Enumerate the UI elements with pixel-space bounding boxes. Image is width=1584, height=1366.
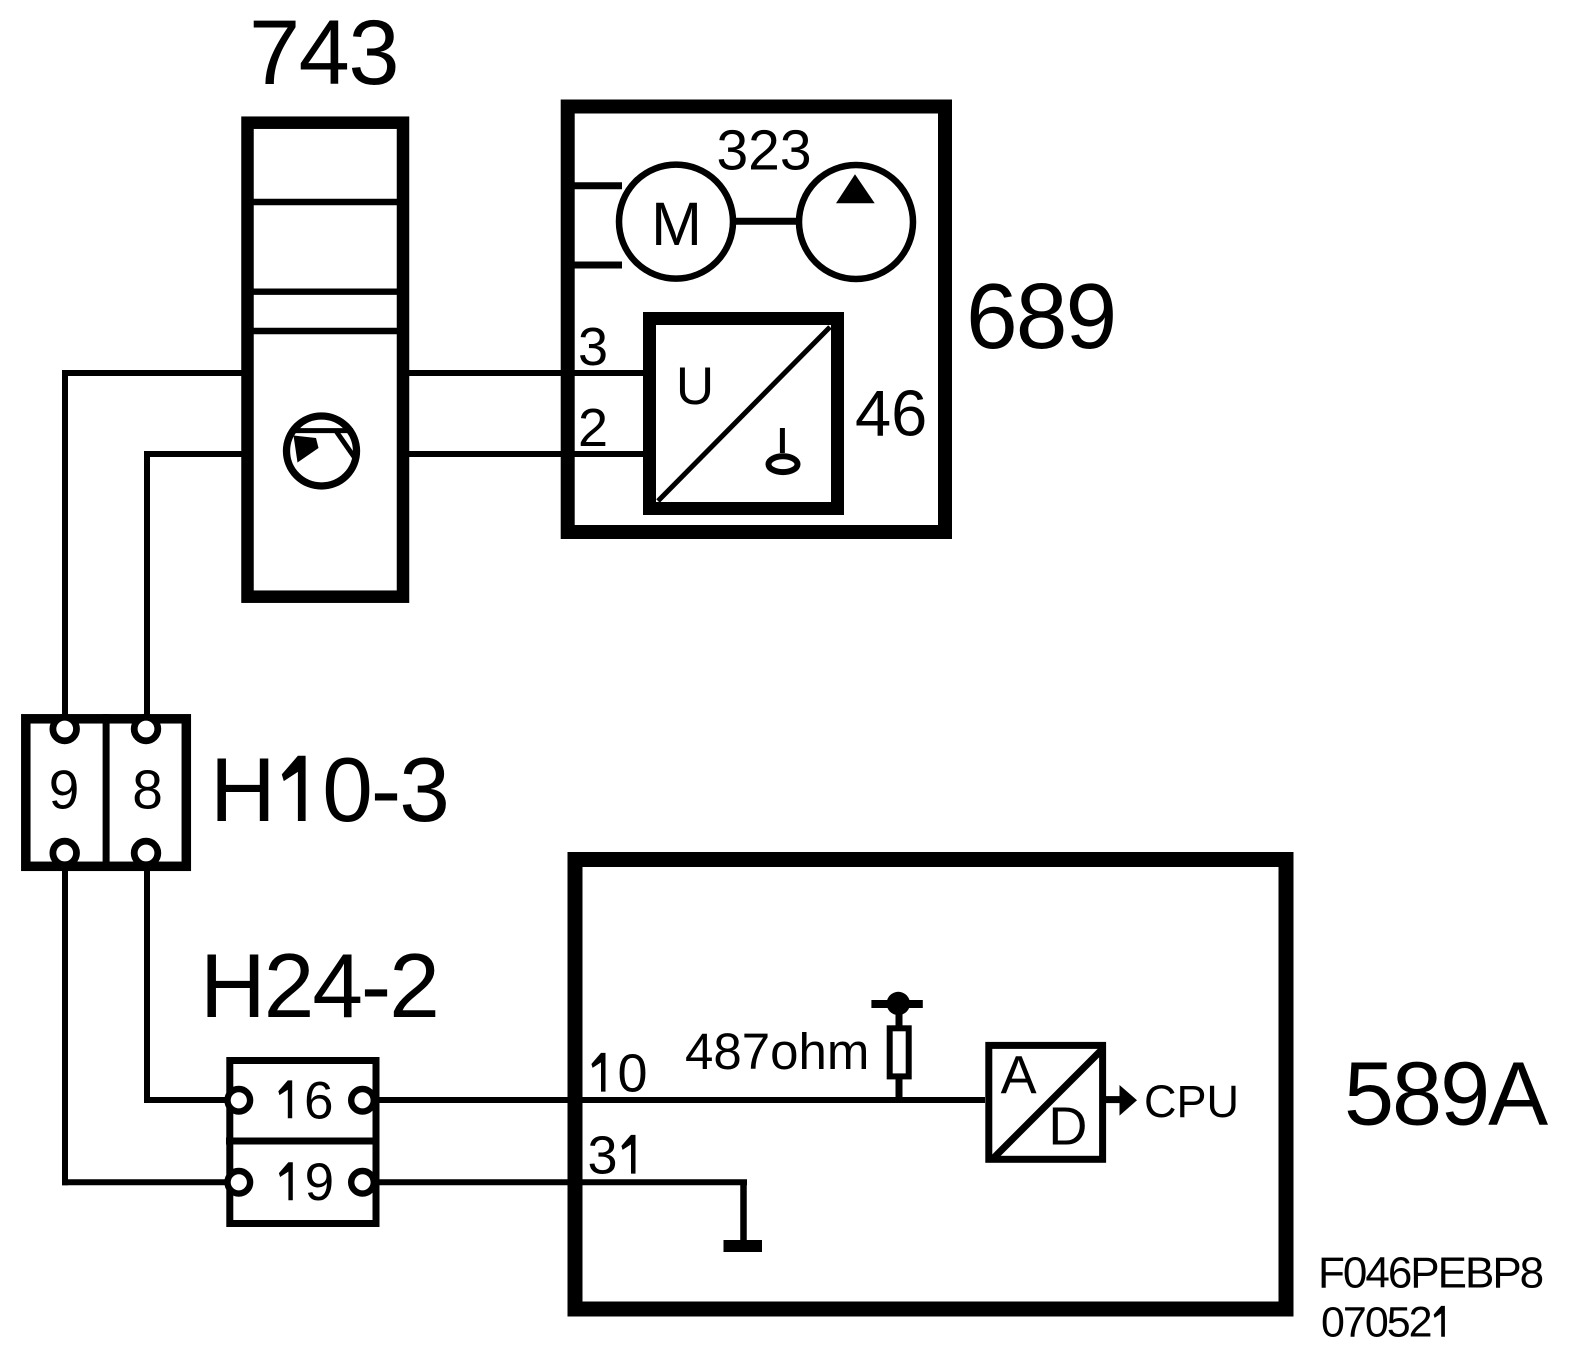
svg-text:0: 0	[618, 1044, 648, 1104]
svg-text:3: 3	[578, 317, 608, 377]
svg-text:H24-2: H24-2	[200, 936, 438, 1037]
svg-text:323: 323	[716, 119, 811, 183]
svg-text:H: H	[210, 740, 276, 841]
svg-text:D: D	[1048, 1097, 1087, 1157]
svg-text:46: 46	[855, 377, 927, 450]
svg-text:07052: 07052	[1321, 1299, 1431, 1347]
svg-text:589A: 589A	[1344, 1045, 1548, 1145]
svg-text:F046PEBP8: F046PEBP8	[1318, 1248, 1543, 1297]
svg-text:A: A	[1001, 1045, 1037, 1105]
svg-text:3: 3	[588, 1126, 618, 1186]
svg-text:CPU: CPU	[1144, 1076, 1239, 1127]
svg-text:9: 9	[49, 759, 80, 821]
svg-text:689: 689	[966, 264, 1115, 368]
svg-text:U: U	[676, 357, 714, 416]
svg-text:M: M	[651, 190, 702, 258]
svg-text:0-3: 0-3	[322, 740, 448, 841]
svg-text:487ohm: 487ohm	[685, 1023, 869, 1080]
svg-text:8: 8	[132, 759, 163, 821]
svg-text:2: 2	[578, 398, 608, 458]
svg-text:743: 743	[249, 2, 398, 104]
svg-text:9: 9	[305, 1153, 334, 1212]
svg-text:6: 6	[304, 1071, 333, 1130]
